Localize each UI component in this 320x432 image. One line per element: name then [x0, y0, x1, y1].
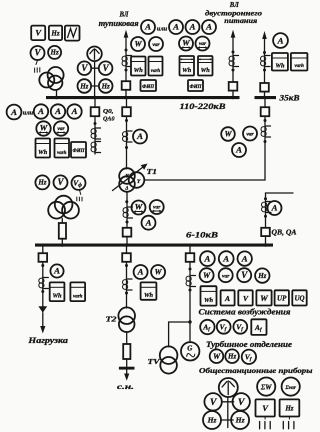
- svg-text:Wh: Wh: [275, 63, 285, 70]
- bidirectional varmeter var (feeder 2): [196, 37, 210, 51]
- frequency meter Hz left (sync group): [78, 79, 92, 93]
- svg-text:ФИП: ФИП: [72, 149, 85, 154]
- svg-text:G: G: [187, 344, 192, 352]
- breaker Q0,QA0: [91, 107, 100, 116]
- phase voltmeter Vф (6-10 TV group): [72, 176, 86, 190]
- node load feeder lower: [41, 290, 44, 293]
- svg-text:T2: T2: [106, 315, 117, 324]
- svg-text:A: A: [222, 253, 229, 263]
- bus 110-220 kV: [46, 96, 240, 99]
- svg-text:Hz: Hz: [101, 82, 110, 90]
- svg-text:Турбинное отделение: Турбинное отделение: [206, 340, 292, 349]
- winding tap of Vф with III marks: [77, 190, 82, 201]
- breaker on 35 link: [261, 107, 270, 116]
- node TV2-bus: [61, 243, 64, 246]
- energy meter Wh (Q0 group): [36, 139, 51, 158]
- frequency meter Hz circle (top-left): [48, 46, 61, 59]
- svg-text:Общестанционные приборы: Общестанционные приборы: [199, 366, 313, 375]
- svg-text:W: W: [135, 201, 144, 211]
- svg-text:A: A: [71, 106, 78, 116]
- winding tap of V meter with III marks: [35, 60, 40, 73]
- recording field ammeter square Af: [251, 319, 266, 335]
- svg-text:35кВ: 35кВ: [278, 93, 300, 102]
- svg-text:A: A: [172, 22, 179, 32]
- wire TV1 to bus: [56, 90, 58, 96]
- node generator feeder upper: [189, 268, 192, 271]
- svg-text:var: var: [153, 205, 161, 211]
- transducer ФИП (feeder 2): [188, 80, 203, 91]
- ammeter A phase1 (generator): [200, 251, 215, 266]
- bus 6-10 kV: [35, 244, 273, 247]
- svg-text:W: W: [260, 293, 269, 303]
- field ammeter Af circle: [200, 320, 214, 334]
- svg-text:ΣW: ΣW: [260, 383, 272, 391]
- generator G: [181, 342, 199, 360]
- sn arrow down: [126, 370, 128, 375]
- varmeter var (35 link): [243, 127, 257, 141]
- svg-text:Wh: Wh: [134, 67, 144, 74]
- bidirectional wattmeter W (T1 low side): [132, 201, 146, 215]
- recording voltmeter square V (generator): [238, 290, 252, 305]
- wattmeter W (35 link): [221, 127, 235, 141]
- node QB-bus: [264, 243, 267, 246]
- energy meter varh (Q0 group): [55, 139, 70, 158]
- svg-text:Hz: Hz: [79, 82, 88, 90]
- voltmeter V (generator): [237, 268, 251, 282]
- ammeter A phase1 (Q0 group): [34, 104, 48, 118]
- node load feeder upper: [41, 264, 44, 267]
- CT on T2 feeder: [123, 279, 133, 290]
- field voltmeter Vf circle 1: [217, 320, 231, 334]
- svg-text:TV: TV: [148, 358, 162, 366]
- energy meter Wh (T2 feeder): [141, 282, 157, 299]
- transformer T2 (two windings): [118, 307, 135, 332]
- energy meter varh (feeder 1): [149, 57, 163, 76]
- svg-text:ВЛ: ВЛ: [119, 10, 130, 18]
- svg-text:A: A: [53, 266, 60, 276]
- synchroscope circle (110-220 bus group): [87, 47, 102, 62]
- wire T1 low side down to 6-10 bus: [126, 192, 128, 244]
- svg-text:Hz: Hz: [50, 29, 59, 37]
- svg-text:или: или: [157, 25, 168, 32]
- total wattmeter ΣW: [257, 378, 275, 396]
- wire T1 35kV winding to the right: [144, 179, 265, 181]
- wire fuse to bus: [61, 239, 63, 244]
- wattmeter W (generator): [200, 268, 214, 282]
- svg-text:Hz: Hz: [207, 416, 217, 425]
- node feeder3 upper: [263, 51, 266, 54]
- node feeder2 lower: [232, 69, 235, 72]
- svg-text:A: A: [144, 22, 151, 32]
- svg-text:с.н.: с.н.: [117, 383, 134, 391]
- breaker load feeder: [39, 253, 48, 262]
- svg-text:V: V: [34, 48, 41, 58]
- svg-text:Нагрузка: Нагрузка: [27, 336, 68, 345]
- svg-text:Σvar: Σvar: [284, 385, 297, 391]
- svg-text:varh: varh: [294, 64, 304, 69]
- fuse of TV2: [59, 223, 66, 239]
- registering voltmeter square V (top-left): [31, 26, 45, 40]
- svg-text:V: V: [241, 270, 248, 280]
- svg-text:Hz: Hz: [50, 49, 59, 57]
- wire fuse down: [126, 359, 128, 367]
- svg-text:A: A: [241, 253, 248, 263]
- fuse (sn branch): [123, 344, 130, 359]
- CT on generator feeder: [186, 276, 196, 287]
- energy meter varh (load feeder): [70, 282, 85, 301]
- node T1 feeder: [125, 119, 128, 122]
- svg-text:Hz: Hz: [227, 353, 236, 361]
- node QB lower: [264, 215, 267, 218]
- wattmeter W (feeder 1): [131, 37, 145, 51]
- svg-text:A: A: [145, 217, 152, 227]
- breaker Q feeder 1: [122, 81, 131, 90]
- svg-text:varh: varh: [151, 69, 161, 74]
- ammeter A (35 link): [232, 143, 246, 157]
- ammeter A option (Q0 group): [7, 105, 22, 120]
- svg-text:UP: UP: [277, 294, 287, 302]
- CT on T1 low side: [123, 207, 133, 218]
- node 35 link at bus: [263, 96, 266, 99]
- wire of sync group: [227, 398, 229, 428]
- svg-text:Wh: Wh: [52, 293, 62, 300]
- recording wattmeter square W (generator): [256, 290, 271, 305]
- energy meter Wh (feeder 1): [131, 57, 146, 76]
- wire to generator TV: [169, 322, 190, 347]
- frequency meter Hz (generator): [255, 268, 269, 282]
- CT on feeder 3: [261, 56, 271, 67]
- svg-text:Wh: Wh: [38, 149, 48, 156]
- wattmeter W (turbine room): [210, 349, 224, 363]
- svg-text:Система возбуждения: Система возбуждения: [199, 308, 291, 317]
- wattmeter W (T2 feeder): [151, 265, 165, 279]
- breaker generator feeder: [186, 253, 195, 262]
- svg-text:Hz: Hz: [235, 416, 245, 425]
- voltmeter V left (station group): [204, 393, 221, 410]
- feeder line 1 (dead-end line): [125, 36, 127, 96]
- svg-text:T1: T1: [147, 167, 158, 176]
- voltage transformer TV2 (3 windings) on 6-10 bus: [48, 196, 79, 219]
- svg-text:Q0,: Q0,: [103, 108, 114, 115]
- CT on feeder 1: [122, 56, 132, 67]
- svg-text:QA0: QA0: [103, 115, 115, 122]
- ammeter A phase3 (generator): [238, 251, 252, 265]
- bidirectional wattmeter W (Q0 group): [36, 121, 50, 135]
- svg-text:var: var: [246, 132, 254, 138]
- svg-text:A: A: [54, 106, 61, 116]
- voltmeter V circle right (sync group): [99, 61, 113, 75]
- frequency meter Hz right (station group): [231, 411, 249, 429]
- ammeter A phase3 (Q0 group): [67, 104, 81, 118]
- voltmeter V right (station group): [233, 393, 250, 410]
- cable termination triangle (load feeder): [38, 306, 47, 313]
- node feeder1 lower: [125, 69, 128, 72]
- feeder line 2 (two-way line, 110-220): [232, 36, 234, 96]
- node TV1-bus: [55, 96, 58, 99]
- arrowhead feeder 2: [231, 30, 236, 38]
- svg-text:varh: varh: [57, 151, 67, 156]
- energy meter varh (feeder 3): [291, 53, 308, 71]
- svg-text:W: W: [40, 122, 49, 132]
- svg-text:W: W: [224, 130, 232, 139]
- node feeder1 upper: [125, 49, 128, 52]
- arrowhead feeder 3: [262, 31, 267, 39]
- bidirectional energy meter Wh1 (feeder 2): [180, 56, 195, 76]
- feeder line 3 (two-way line, 35kV): [264, 38, 266, 96]
- breaker Q feeder 2: [229, 82, 238, 91]
- CT on T1 high side: [123, 131, 133, 142]
- frequency meter Hz left (station group): [203, 411, 221, 429]
- frequency meter Hz right (sync group): [99, 79, 113, 93]
- frequency meter Hz (6-10 TV group): [35, 175, 49, 189]
- svg-text:V: V: [81, 63, 88, 73]
- breaker Q feeder 3: [260, 83, 269, 92]
- breaker T1 high side: [122, 107, 131, 116]
- wire TV2 to fuse: [61, 219, 63, 223]
- svg-text:A: A: [235, 145, 242, 155]
- ammeter A (QB feeder): [268, 201, 282, 215]
- svg-text:V: V: [103, 63, 110, 73]
- svg-text:A: A: [277, 35, 284, 45]
- svg-text:ФИП: ФИП: [189, 85, 202, 90]
- svg-text:A: A: [10, 107, 17, 117]
- ammeter A (T1 high side): [133, 130, 147, 144]
- ammeter A (T2 feeder): [134, 265, 148, 279]
- bidirectional varmeter var (Q0 group): [54, 121, 68, 135]
- svg-text:V: V: [57, 177, 64, 187]
- svg-text:W: W: [213, 352, 221, 361]
- wire up to 35 bus: [264, 99, 266, 180]
- transformer T1 (three-winding, with tap changer arrow): [113, 164, 148, 192]
- svg-text:6-10кВ: 6-10кВ: [186, 231, 219, 240]
- node T2 feeder upper: [125, 264, 128, 267]
- breaker T2 feeder: [122, 253, 131, 262]
- transducer square UQ (generator): [292, 290, 306, 305]
- node T1-bus610: [125, 243, 128, 246]
- winding marks III under Hz square: [283, 417, 294, 429]
- node QB upper: [264, 197, 267, 200]
- tie stubs in sync group: [221, 402, 234, 420]
- wire sync group to bus: [94, 61, 96, 96]
- CT pair on Q0 stub: [91, 128, 101, 139]
- svg-text:Δ: Δ: [124, 187, 128, 192]
- CT on QB feeder: [262, 202, 272, 213]
- registering frequency meter square Hz (top-left): [49, 26, 62, 40]
- voltage transformer TV1 (3 windings) on 110-220 bus: [39, 67, 63, 90]
- frequency meter Hz (turbine room): [225, 349, 239, 363]
- energy meter Wh (load feeder): [50, 282, 65, 301]
- synchroscope (station group): [219, 378, 238, 397]
- svg-text:Hz: Hz: [284, 405, 293, 413]
- ammeter A (feeder 1): [141, 20, 155, 34]
- svg-text:UQ: UQ: [294, 294, 304, 302]
- svg-text:ФИП: ФИП: [142, 85, 155, 90]
- varmeter var (feeder 1): [149, 37, 163, 51]
- svg-text:var: var: [57, 126, 65, 132]
- bidirectional energy meter Wh2 (feeder 2): [198, 56, 213, 76]
- wire T2 to fuse: [126, 332, 128, 344]
- voltmeter V (6-10 TV group): [54, 175, 68, 189]
- svg-text:QB, QA: QB, QA: [272, 229, 297, 237]
- svg-text:var: var: [199, 41, 207, 47]
- svg-text:A: A: [205, 22, 212, 32]
- recording energy meter Wh (generator): [201, 286, 217, 305]
- transformer T2 feeder from 6-10 bus: [126, 247, 128, 309]
- bus 35 kV: [255, 96, 277, 99]
- svg-text:W: W: [182, 37, 191, 47]
- ammeter A phase3 (feeder 2): [202, 20, 216, 34]
- oscillograph square N (top-left): [65, 26, 80, 41]
- svg-text:110-220кВ: 110-220кВ: [180, 102, 227, 111]
- svg-text:A: A: [137, 267, 144, 277]
- svg-text:питания: питания: [224, 16, 257, 25]
- node sync-bus: [93, 96, 96, 99]
- ammeter A phase2 (generator): [219, 251, 234, 266]
- node stub: [94, 122, 97, 125]
- svg-text:W: W: [203, 271, 211, 280]
- energy meter Wh (feeder 3): [272, 53, 288, 71]
- svg-text:Wh: Wh: [201, 67, 211, 74]
- generator feeder from 6-10 bus: [189, 247, 191, 343]
- ammeter A (load feeder): [50, 264, 63, 277]
- svg-text:или: или: [23, 109, 34, 116]
- svg-text:A: A: [224, 294, 230, 303]
- node feeder1-bus: [124, 96, 127, 99]
- svg-text:A: A: [136, 131, 143, 141]
- field voltmeter Vf circle 2: [233, 320, 247, 334]
- CT on 35 link: [261, 126, 271, 137]
- bidirectional varmeter var (T1 low side): [150, 200, 164, 214]
- varmeter var (generator): [219, 268, 233, 282]
- node feeder2-bus: [231, 96, 234, 99]
- breaker T1 low side: [123, 228, 132, 237]
- svg-text:Wh: Wh: [182, 67, 192, 74]
- node below CT 35 link: [264, 140, 267, 143]
- ammeter A phase1 (feeder 2): [169, 20, 183, 34]
- node below T1: [125, 200, 128, 203]
- arrowhead feeder 1: [124, 30, 129, 38]
- link bar symbol (sn branch): [119, 367, 135, 370]
- ammeter A phase2 (Q0 group): [51, 104, 65, 118]
- node above breaker: [126, 221, 129, 224]
- recording ammeter square A (generator): [221, 290, 235, 305]
- svg-text:var: var: [222, 273, 230, 279]
- CT on load feeder: [39, 278, 48, 289]
- svg-text:Wh: Wh: [144, 292, 154, 299]
- svg-text:A: A: [271, 203, 278, 213]
- svg-text:Wh: Wh: [204, 297, 214, 304]
- winding marks III under V square: [260, 417, 271, 429]
- tie stubs in sync group: [91, 68, 98, 86]
- node feeder3 lower: [263, 69, 266, 72]
- svg-text:W: W: [134, 40, 142, 49]
- ammeter A phase2 (feeder 2): [186, 20, 200, 34]
- node generator feeder lower: [189, 289, 192, 292]
- ammeter A (feeder 3): [273, 33, 288, 48]
- svg-text:Hz: Hz: [257, 272, 266, 280]
- ammeter A (T1 low side): [142, 216, 156, 230]
- CT on feeder 2: [229, 56, 239, 67]
- node TV tap junction: [188, 320, 191, 323]
- svg-text:A: A: [37, 106, 44, 116]
- node T2 feeder lower: [125, 292, 128, 295]
- svg-text:var: var: [152, 42, 160, 48]
- bidirectional wattmeter W (feeder 2): [179, 37, 193, 51]
- voltmeter V circle left (sync group): [78, 61, 92, 75]
- reactor line stub to QB,QA: [266, 193, 294, 244]
- field voltmeter Vf (turbine room): [242, 350, 256, 364]
- svg-text:Hz: Hz: [37, 179, 46, 187]
- transducer ФИП (Q0 group): [71, 142, 86, 158]
- transformer T1 feeder from 110-220 bus: [126, 99, 128, 169]
- svg-text:varh: varh: [73, 294, 83, 299]
- svg-text:W: W: [155, 268, 163, 277]
- node below CT: [125, 146, 128, 149]
- load feeder from 6-10 bus: [42, 247, 44, 307]
- svg-text:A: A: [189, 22, 196, 32]
- recording voltmeter square V (station group): [256, 399, 275, 416]
- breaker QB,QA: [261, 228, 270, 236]
- total varmeter Σvar: [282, 378, 300, 396]
- bus-tie / bypass breakers stub Q0,QA0: [94, 99, 96, 154]
- recording frequency meter square Hz (station group): [280, 399, 300, 416]
- transducer ФИП (feeder 1): [141, 80, 157, 91]
- load arrow down: [42, 313, 44, 327]
- node 35 link: [264, 119, 267, 122]
- svg-text:тупиковая: тупиковая: [99, 19, 139, 28]
- voltage transformer TV (generator): [160, 346, 178, 373]
- voltmeter V circle (top-left): [31, 46, 45, 60]
- node feeder2 upper: [232, 51, 235, 54]
- transducer square UP (generator): [275, 290, 289, 305]
- svg-text:A: A: [203, 253, 210, 263]
